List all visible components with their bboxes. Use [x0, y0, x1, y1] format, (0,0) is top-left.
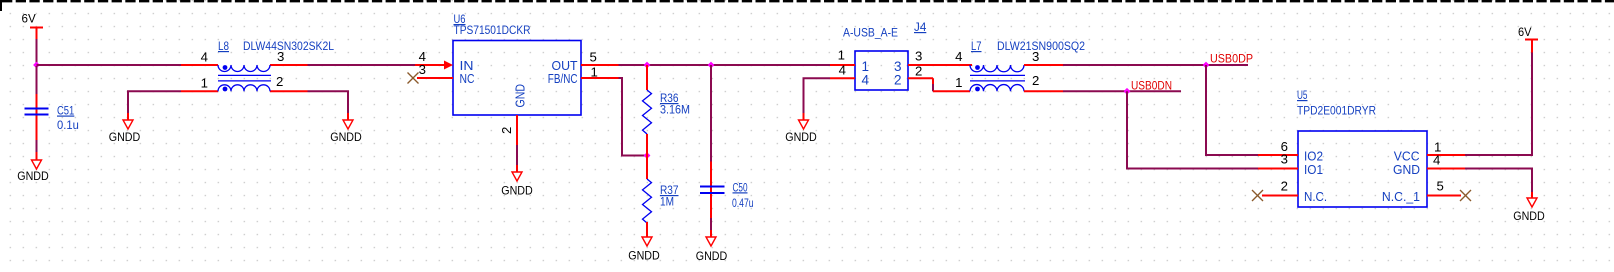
- pin 3 IO1 of U5: [1258, 152, 1323, 178]
- svg-text:2: 2: [276, 74, 283, 89]
- pin 4 GND of U5: [1393, 153, 1465, 178]
- svg-text:1: 1: [201, 75, 208, 90]
- svg-text:2: 2: [1032, 73, 1039, 88]
- svg-text:3: 3: [1281, 152, 1288, 167]
- svg-text:6V: 6V: [22, 12, 36, 26]
- ground GNDD at J4: [785, 113, 817, 144]
- svg-text:N.C._1: N.C._1: [1382, 190, 1420, 204]
- node junction at 6V rail: [33, 62, 40, 69]
- svg-text:0.47u: 0.47u: [732, 196, 754, 210]
- svg-text:TPD2E001DRYR: TPD2E001DRYR: [1297, 104, 1376, 118]
- inductor L7 labels: [971, 39, 1085, 53]
- svg-text:GND: GND: [514, 84, 528, 108]
- wire 6V to U5 VCC: [1465, 53, 1532, 156]
- inductor L8: [181, 65, 308, 91]
- svg-text:5: 5: [1437, 179, 1444, 194]
- svg-text:NC: NC: [460, 72, 475, 86]
- wire U6 OUT rail: [619, 64, 831, 66]
- sheet border top (dashed): [2, 0, 1614, 2]
- svg-text:DLW21SN900SQ2: DLW21SN900SQ2: [997, 39, 1085, 53]
- pin 3 of J4: [894, 49, 972, 75]
- svg-text:GNDD: GNDD: [17, 169, 49, 183]
- svg-text:C50: C50: [733, 180, 748, 194]
- svg-text:4: 4: [1433, 153, 1440, 168]
- svg-text:IO1: IO1: [1304, 163, 1323, 177]
- wire J4 pin4 to ground: [804, 78, 831, 113]
- svg-text:J4: J4: [914, 20, 927, 34]
- node junction divider tap: [644, 152, 651, 159]
- inductor L7: [970, 65, 1063, 91]
- svg-text:3: 3: [277, 49, 284, 64]
- wire FB/NC to divider tap: [619, 78, 648, 156]
- svg-text:2: 2: [915, 64, 922, 79]
- svg-text:5: 5: [590, 49, 597, 64]
- IC U5 labels: [1297, 88, 1376, 118]
- svg-text:1: 1: [955, 75, 962, 90]
- resistor R37: [643, 156, 679, 237]
- svg-text:0.1u: 0.1u: [57, 118, 79, 132]
- IC U6 body: [453, 41, 581, 116]
- pin 5 OUT of U6: [552, 49, 619, 73]
- svg-text:IN: IN: [460, 59, 474, 73]
- connector J4 body: [855, 51, 908, 90]
- svg-text:4: 4: [955, 49, 962, 64]
- svg-text:DLW44SN302SK2L: DLW44SN302SK2L: [243, 39, 334, 53]
- svg-text:FB/NC: FB/NC: [548, 72, 578, 86]
- pin 4 IN of U6: [415, 49, 474, 73]
- wire L8 pin3 to U6: [308, 64, 416, 66]
- svg-text:4: 4: [862, 73, 870, 88]
- wire J4 pin2 jog: [932, 78, 934, 84]
- power port 6V (right): [1518, 25, 1538, 53]
- pin 2 GND of U6: [499, 84, 528, 145]
- node junction USB0DN: [1124, 88, 1131, 95]
- power port 6V (left): [22, 12, 44, 40]
- node junction USB0DP: [1203, 62, 1210, 69]
- capacitor C50: [700, 162, 754, 219]
- pin 1 FB/NC of U6: [548, 65, 619, 87]
- connector J4 labels: [843, 20, 927, 40]
- svg-text:3: 3: [1032, 49, 1039, 64]
- svg-text:N.C.: N.C.: [1304, 190, 1327, 204]
- svg-text:GNDD: GNDD: [330, 130, 362, 144]
- wire main rail y65 seg1: [37, 64, 182, 66]
- svg-text:C51: C51: [57, 104, 74, 118]
- svg-text:1: 1: [838, 48, 845, 63]
- ground GNDD at U5: [1513, 192, 1545, 223]
- pin 1 VCC of U5: [1394, 140, 1465, 164]
- ground GNDD under C51: [17, 152, 49, 183]
- svg-text:GNDD: GNDD: [1513, 209, 1545, 223]
- svg-text:GND: GND: [1393, 163, 1420, 177]
- pin 5 N.C._1 of U5 with no-connect cross: [1382, 179, 1471, 205]
- capacitor C51: [25, 66, 79, 140]
- svg-text:IO2: IO2: [1304, 150, 1323, 164]
- svg-text:GNDD: GNDD: [501, 184, 533, 198]
- svg-text:L7: L7: [971, 39, 982, 53]
- wire C51 to ground: [36, 140, 38, 152]
- svg-text:4: 4: [201, 49, 208, 64]
- svg-text:2: 2: [499, 127, 514, 134]
- svg-text:USB0DP: USB0DP: [1210, 52, 1253, 66]
- svg-text:L8: L8: [218, 39, 229, 53]
- pin 2 N.C. of U5 with no-connect cross: [1252, 179, 1327, 205]
- node junction at R36 top: [644, 62, 651, 69]
- pin 1 of J4: [830, 48, 869, 75]
- wire USB0DN to U5 IO1: [1127, 91, 1258, 168]
- svg-text:USB0DN: USB0DN: [1131, 78, 1172, 92]
- svg-text:3: 3: [419, 62, 426, 77]
- wire U6 GND down: [516, 145, 518, 165]
- node junction at C50 rail: [708, 62, 715, 69]
- wire USB0DP rail: [1063, 64, 1248, 66]
- wire USB0DP to U5 IO2: [1206, 65, 1258, 155]
- ground GNDD under C50: [696, 230, 728, 263]
- pin 6 IO2 of U5: [1258, 139, 1323, 164]
- svg-text:1M: 1M: [660, 195, 674, 209]
- ground GNDD under U6: [501, 165, 533, 198]
- svg-text:GNDD: GNDD: [696, 249, 728, 263]
- svg-text:3: 3: [915, 49, 922, 64]
- svg-text:2: 2: [894, 73, 902, 88]
- svg-text:OUT: OUT: [552, 59, 578, 73]
- sheet border left stub: [0, 0, 2, 11]
- svg-text:GNDD: GNDD: [785, 130, 817, 144]
- inductor L8 labels: [218, 39, 334, 53]
- ground GNDD at L8 pin2: [330, 113, 362, 144]
- svg-text:3.16M: 3.16M: [660, 103, 690, 117]
- svg-text:GNDD: GNDD: [628, 249, 660, 263]
- svg-text:U5: U5: [1297, 88, 1308, 102]
- svg-text:A-USB_A-E: A-USB_A-E: [843, 26, 898, 40]
- svg-text:VCC: VCC: [1394, 150, 1420, 164]
- svg-text:GNDD: GNDD: [109, 130, 141, 144]
- ground GNDD at L8 pin1: [109, 113, 141, 144]
- svg-text:6V: 6V: [1518, 25, 1532, 39]
- svg-text:4: 4: [839, 63, 846, 78]
- IC U5 body: [1298, 131, 1427, 207]
- wire U5 GND to ground: [1465, 169, 1532, 193]
- wire C50 to ground: [710, 218, 712, 230]
- pin 2 of J4: [894, 64, 933, 88]
- wire L8 pin1 to ground: [128, 91, 181, 113]
- wire L8 pin2 to ground: [308, 91, 349, 113]
- pin 4 of J4: [830, 63, 870, 88]
- op IC U6 labels: [454, 12, 531, 37]
- wire C50 drop: [710, 65, 712, 162]
- svg-text:2: 2: [1281, 179, 1288, 194]
- svg-text:TPS71501DCKR: TPS71501DCKR: [454, 23, 531, 37]
- ground GNDD under R37: [628, 237, 660, 263]
- resistor R36: [643, 65, 691, 156]
- wire 6V stem to junction: [36, 39, 38, 66]
- pin 3 NC of U6 with no-connect cross: [408, 62, 475, 86]
- wire USB0DN rail: [1063, 90, 1181, 92]
